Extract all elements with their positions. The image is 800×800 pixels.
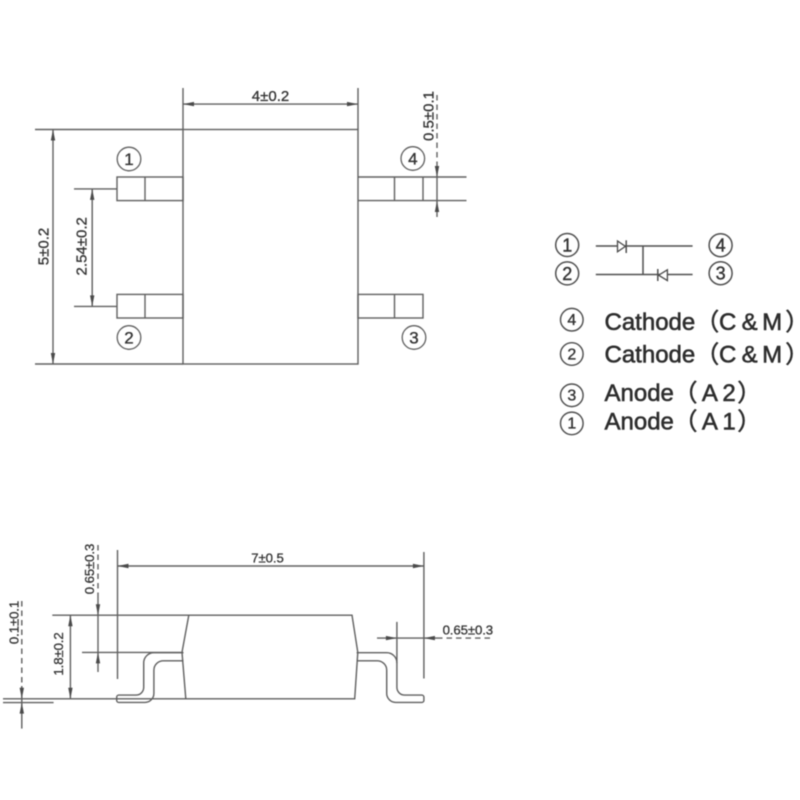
body top extension line [52,614,189,616]
arrowheads 2.54±0.2 [90,189,94,200]
seating plane line [3,702,54,704]
wire bottom [596,274,693,276]
pin 2 [117,294,183,318]
dimension 2.54±0.2 line [91,189,93,307]
package body side view [182,615,358,699]
pin marker circle 3 [402,326,426,350]
svg-text:1.8±0.2: 1.8±0.2 [51,632,66,675]
dimension 2.54±0.2 extension lines [74,189,117,307]
svg-text:Cathode（C&M）: Cathode（C&M） [605,309,800,336]
diode D1 cathode bar [625,240,627,253]
lead right gull-wing [357,653,424,703]
svg-text:2: 2 [562,264,572,284]
arrowheads 7±0.5 [118,564,129,568]
dimension 5±0.2 extension lines [35,130,183,365]
wire common junction [642,246,644,275]
schematic circle pin 1 [556,234,579,257]
dimension 4±0.2 line [183,103,358,105]
dimension 0.5±0.1 leader dashed [436,95,438,217]
dimension 1.8±0.2 line [69,615,71,699]
dimension 7±0.5 line [118,565,424,567]
svg-text:Cathode（C&M）: Cathode（C&M） [605,342,800,369]
svg-text:3: 3 [567,388,576,405]
svg-text:Anode（A2）: Anode（A2） [605,380,762,407]
svg-text:2: 2 [124,329,133,348]
svg-text:4: 4 [408,150,417,169]
list circle 3 [561,384,584,407]
dimension 4±0.2 extension lines [183,88,358,130]
pin marker circle 1 [117,147,141,171]
pin 1 [117,177,183,201]
dimension 0.1±0.1 leader [21,601,23,729]
list circle 1 [561,412,584,435]
pin 3 [358,294,423,318]
svg-text:1: 1 [124,150,133,169]
svg-text:2.54±0.2: 2.54±0.2 [74,217,91,275]
arrowheads 1.8±0.2 [68,615,72,626]
svg-text:1: 1 [562,236,572,256]
package body top view [183,130,358,365]
lead top extension line [82,651,183,653]
svg-text:1: 1 [567,416,576,433]
arrowheads 4±0.2 [183,102,194,106]
svg-text:3: 3 [409,329,418,348]
svg-text:0.5±0.1: 0.5±0.1 [421,91,438,141]
svg-text:3: 3 [716,264,726,284]
dimension 0.65±0.3 left leader [97,545,99,672]
list circle 4 [561,308,584,331]
svg-text:Anode（A1）: Anode（A1） [605,408,762,435]
diode D2 cathode bar [657,269,659,281]
pin marker circle 4 [401,147,425,171]
schematic circle pin 4 [709,234,732,257]
body bottom extension line [3,698,186,700]
svg-text:0.65±0.3: 0.65±0.3 [443,623,493,638]
arrowheads 0.65±0.3 right [386,636,397,640]
diode D2 triangle [659,270,668,281]
svg-text:4±0.2: 4±0.2 [252,88,289,105]
svg-text:0.65±0.3: 0.65±0.3 [82,544,97,594]
arrowheads 0.1±0.1 [20,688,24,699]
pin marker circle 2 [117,326,141,350]
svg-text:4: 4 [567,312,576,329]
svg-text:4: 4 [716,236,726,256]
dimension 5±0.2 line [52,130,54,365]
svg-text:0.1±0.1: 0.1±0.1 [7,601,22,644]
schematic circle pin 3 [709,262,732,285]
pin 4 [358,177,467,201]
wire top [596,245,693,247]
arrowheads 0.5±0.1 [435,166,439,177]
dimension 7±0.5 extension lines [118,550,424,679]
svg-text:5±0.2: 5±0.2 [36,228,53,265]
svg-text:2: 2 [567,346,576,363]
schematic circle pin 2 [556,262,579,285]
arrowheads 0.65±0.3 left [96,604,100,615]
svg-text:7±0.5: 7±0.5 [251,551,283,566]
arrowheads 5±0.2 [51,130,55,141]
diode D1 triangle [618,241,626,252]
lead left gull-wing [117,653,184,703]
list circle 2 [561,343,584,366]
dimension 0.65±0.3 right line [377,637,494,639]
dimension 0.65±0.3 right extension line [396,622,398,663]
